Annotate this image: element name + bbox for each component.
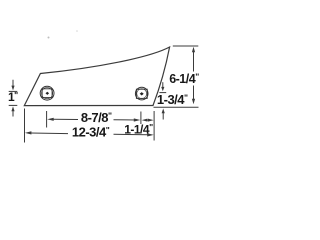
dimension 1-1/4" (hole to end) bbox=[142, 111, 154, 141]
dimension 1" (left height) bbox=[9, 80, 18, 117]
dimension 6-1/4" (overall height, right) bbox=[154, 46, 199, 107]
svg-text:6-1/4": 6-1/4" bbox=[169, 72, 199, 86]
svg-text:12-3/4": 12-3/4" bbox=[72, 124, 110, 139]
dimension 12-3/4" (overall length) bbox=[25, 109, 154, 143]
dimension 1-3/4" (hole line to bottom) bbox=[159, 82, 166, 119]
right bolt hole bbox=[135, 87, 148, 100]
blade outline bbox=[24, 47, 169, 106]
svg-text:1-3/4": 1-3/4" bbox=[157, 92, 188, 107]
left bolt hole bbox=[40, 86, 54, 100]
scan specks bbox=[48, 37, 50, 39]
dimension 8-7/8" (hole spacing) bbox=[47, 111, 141, 128]
svg-text:8-7/8": 8-7/8" bbox=[81, 110, 112, 125]
